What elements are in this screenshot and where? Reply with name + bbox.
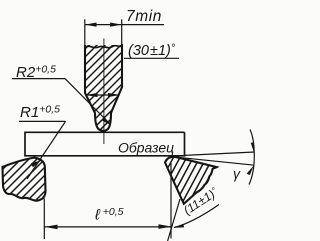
l dimension line	[44, 226, 171, 228]
label R1 underline	[19, 120, 66, 122]
angle 30 arrows inside striker	[86, 94, 120, 96]
leader R2	[65, 79, 111, 125]
svg-text:7min: 7min	[126, 8, 162, 25]
svg-text:γ: γ	[233, 166, 241, 182]
l dimension arrow right	[159, 224, 172, 229]
left support hatching	[0, 150, 94, 205]
gamma arrow lower (points up at face line)	[247, 165, 254, 175]
specimen bottom extension line (gamma)	[185, 152, 255, 155]
leader R2 arrow	[102, 117, 112, 125]
gamma angle arc	[249, 130, 254, 185]
striker centerline	[103, 39, 105, 145]
right support face extension line	[177, 157, 255, 165]
left support outline	[3, 158, 46, 201]
striker wavy break line top	[85, 46, 123, 48]
leader R1 arrow	[31, 160, 42, 167]
svg-text:(30±1)°: (30±1)°	[128, 43, 176, 60]
specimen outline	[25, 132, 185, 156]
striker extension line right (7min)	[121, 19, 123, 45]
leader R1	[27, 121, 66, 179]
label R2 underline	[12, 78, 65, 80]
l dimension arrow left	[45, 225, 58, 230]
l dimension left extension line	[43, 199, 45, 240]
right support hatching (steep)	[156, 147, 224, 217]
dimension 7min arrow right	[110, 23, 122, 27]
angle (11±1) arrow	[174, 224, 185, 228]
gamma arrow upper (points down at specimen line)	[251, 142, 254, 152]
striker hatching	[0, 35, 219, 135]
svg-text:Образец: Образец	[118, 140, 174, 156]
right support outline	[165, 157, 217, 204]
dimension 7min line	[85, 24, 164, 26]
dimension 7min arrow left	[85, 23, 97, 27]
striker body outline	[85, 44, 122, 131]
support inner face extension (11 deg)	[168, 199, 180, 241]
striker U1: extension line left (7min)	[84, 19, 86, 47]
label (30±1)° underline	[124, 57, 179, 59]
angle (11±1) arc	[174, 205, 219, 228]
l dimension right extension line	[170, 163, 172, 239]
